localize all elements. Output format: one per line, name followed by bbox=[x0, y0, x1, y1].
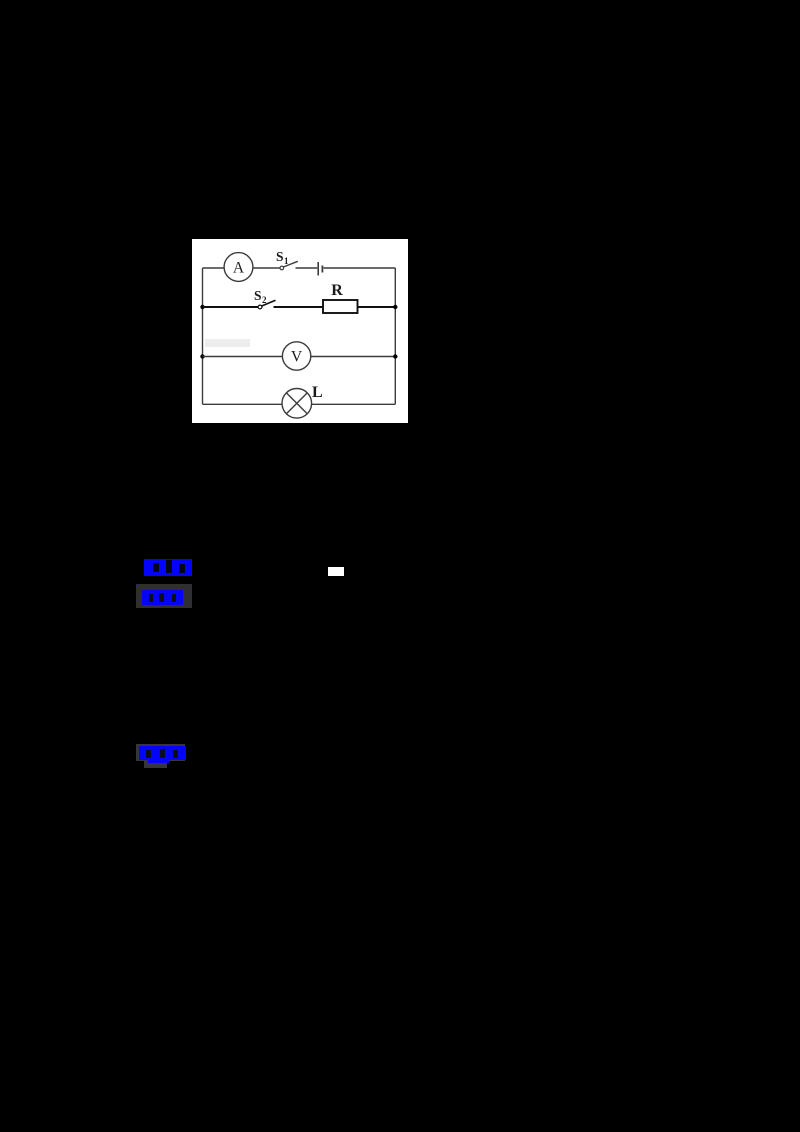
voltmeter V1 bbox=[282, 342, 310, 370]
wire row4 right segment bbox=[312, 403, 396, 405]
wire row4 left segment bbox=[203, 403, 283, 405]
white dash bbox=[328, 567, 344, 576]
wire S1 to battery bbox=[296, 267, 318, 269]
battery B1 bbox=[317, 262, 319, 276]
lamp L bbox=[282, 389, 312, 419]
blue label 2 bbox=[136, 584, 192, 608]
circuit image white panel bbox=[192, 239, 408, 423]
blue label 3 bbox=[136, 744, 185, 761]
wire battery to right bbox=[324, 267, 396, 269]
node right row3 bbox=[393, 354, 397, 358]
wire left vertical bbox=[202, 268, 204, 404]
svg-text:A: A bbox=[233, 260, 245, 277]
svg-text:S: S bbox=[254, 288, 262, 303]
resistor R bbox=[323, 300, 358, 313]
faint watermark remnant bbox=[205, 339, 250, 347]
wire row3 right segment bbox=[311, 356, 396, 358]
ammeter A1 bbox=[224, 253, 253, 282]
svg-text:S: S bbox=[276, 249, 284, 264]
blue label 1 bbox=[144, 559, 192, 576]
svg-text:R: R bbox=[331, 282, 343, 299]
switch S1 bbox=[280, 266, 284, 270]
wire S2 to resistor bbox=[274, 306, 324, 308]
node left row2 bbox=[200, 305, 204, 309]
node left row3 bbox=[200, 354, 204, 358]
wire row2 left segment bbox=[203, 306, 259, 308]
wire resistor to right bbox=[358, 306, 396, 308]
wire row1 left segment bbox=[203, 267, 225, 269]
wire right vertical bbox=[394, 268, 396, 404]
svg-text:2: 2 bbox=[262, 295, 267, 305]
svg-text:1: 1 bbox=[284, 256, 289, 266]
node right row2 bbox=[393, 305, 397, 309]
svg-text:L: L bbox=[312, 384, 323, 401]
svg-text:V: V bbox=[291, 349, 303, 366]
wire ammeter to switch S1 bbox=[253, 267, 280, 269]
switch S2 bbox=[258, 305, 262, 309]
wire row3 left segment bbox=[203, 356, 283, 358]
